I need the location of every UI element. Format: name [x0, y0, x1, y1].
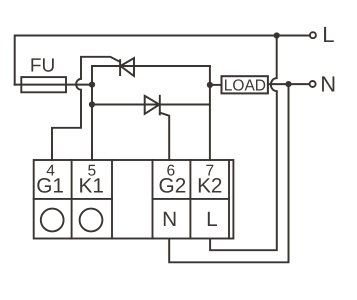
terminal block outer housing — [34, 160, 234, 239]
terminal block cell divider 1-2 — [71, 160, 73, 239]
wire fuse lead: left vertical to fuse to junction K1 — [15, 84, 92, 86]
LOAD box — [222, 76, 268, 93]
svg-text:FU: FU — [30, 56, 55, 77]
terminal L circle — [310, 32, 316, 38]
node junction LOAD-left / K2 riser — [207, 82, 213, 88]
node junction N line / N-terminal branch — [285, 81, 291, 87]
terminal N circle — [310, 81, 316, 87]
terminal block cell divider 3-4 — [189, 160, 191, 239]
wire K2 riser: vertical at x=210 down to terminal 7 — [209, 66, 211, 160]
thyristor V1 (top, pointing left): cathode bar — [119, 60, 121, 75]
node junction K1 riser / lower SCR anode wire — [89, 101, 95, 107]
wire LOAD right lead to N terminal — [268, 83, 310, 85]
thyristor V1 triangle — [120, 58, 134, 76]
svg-text:N: N — [320, 72, 336, 97]
svg-text:L: L — [206, 208, 218, 231]
fuse FU body — [21, 77, 66, 92]
wire LOAD left lead — [210, 84, 222, 86]
wire L-junction branch: down with hop over LOAD wire, to bottom, left, up to block terminal L — [210, 36, 277, 251]
svg-text:L: L — [322, 22, 334, 47]
terminal block cell 3 left edge — [152, 160, 154, 239]
node junction fuse/K1 riser — [89, 82, 95, 88]
svg-text:N: N — [162, 208, 177, 231]
svg-text:K1: K1 — [78, 175, 103, 198]
node on L line (junction to L-terminal branch) — [274, 32, 280, 38]
svg-text:G1: G1 — [36, 175, 64, 198]
wire lower SCR anode wire: from junction right to x=210 — [92, 104, 210, 106]
wire V2 gate to G2: diagonal then down to terminal 6 — [160, 113, 169, 160]
terminal block cell 4 right edge — [228, 160, 230, 239]
terminal block horizontal divider left pair — [34, 198, 112, 200]
terminal block horizontal divider right pair — [153, 198, 230, 200]
thyristor V2 (bottom, pointing right): triangle — [145, 96, 160, 114]
thyristor V2 cathode bar — [159, 96, 161, 115]
terminal block cell 2 right edge — [111, 160, 113, 239]
wire N-junction branch: down, left, up to block terminal N — [169, 84, 288, 262]
svg-text:G2: G2 — [159, 175, 187, 198]
wire L line top: from top-left corner to L terminal — [15, 36, 310, 85]
svg-text:LOAD: LOAD — [224, 78, 266, 95]
svg-text:K2: K2 — [197, 175, 222, 198]
wire V1 gate to G1: diagonal, horizontal, hop over fuse wire, jog, down to terminal 4 — [52, 57, 120, 160]
terminal screw circle under 5 — [80, 209, 103, 232]
wire K1 riser and top SCR main wire: K1 terminal up, right to corner x=210 — [92, 66, 210, 160]
terminal screw circle under 4 — [41, 209, 64, 232]
